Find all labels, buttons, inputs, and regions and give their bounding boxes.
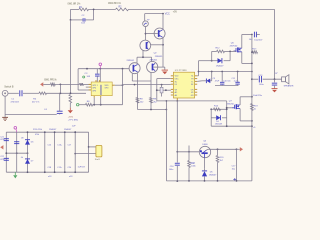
resistor R15 vertical bbox=[188, 161, 191, 168]
wire x16 vert bbox=[16, 132, 18, 172]
wire y34 right stub bbox=[257, 34, 260, 36]
wire mains bottom rail bbox=[6, 171, 88, 173]
wire x88 vertical bbox=[88, 132, 90, 172]
label C17b bbox=[232, 169, 236, 171]
capacitor C2 bbox=[83, 18, 85, 21]
label R12 bbox=[216, 48, 221, 50]
wire R4 to IC2 area bbox=[47, 92, 87, 94]
wire T3 top bbox=[144, 14, 147, 22]
junction base Q2 bbox=[145, 33, 147, 35]
label D6 bbox=[31, 141, 34, 143]
svg-text:GP4: GP4 bbox=[92, 88, 96, 90]
wire y85 long bbox=[123, 84, 171, 86]
junction row71 c10 bbox=[237, 71, 239, 73]
label Q3 type bbox=[127, 60, 135, 62]
svg-text:R*: R* bbox=[147, 20, 150, 22]
transistor Q6 mosfet bbox=[234, 47, 242, 52]
junction crystal top bbox=[88, 146, 90, 148]
svg-text:470n/D3: 470n/D3 bbox=[11, 102, 20, 104]
label C15 bbox=[253, 95, 263, 97]
port arrow BW1 bbox=[40, 82, 43, 86]
junction rail x189 bbox=[188, 151, 190, 153]
label mains r13b bbox=[35, 134, 39, 136]
wire Q7 drain bbox=[239, 97, 241, 105]
junction mega y52 bbox=[251, 51, 253, 53]
svg-text:1uF/C9: 1uF/C9 bbox=[78, 167, 86, 169]
resistor R14 bbox=[214, 108, 221, 111]
wire x166 vertical bbox=[165, 101, 167, 181]
wire C3 bottom bbox=[96, 77, 98, 82]
svg-text:C16+: C16+ bbox=[57, 144, 63, 146]
label C12 bbox=[249, 39, 253, 41]
label C2 bbox=[82, 15, 86, 17]
junction y109 b bbox=[166, 109, 168, 111]
transistor Q5 power bbox=[199, 146, 210, 157]
label col c19 bbox=[57, 167, 63, 169]
label CX1 bbox=[0, 136, 5, 141]
svg-text:SL: SL bbox=[191, 76, 193, 78]
svg-text:47uF: 47uF bbox=[215, 80, 220, 82]
resistor R5 bbox=[51, 83, 56, 86]
svg-text:470k: 470k bbox=[0, 159, 4, 161]
wire Q2 collector bbox=[162, 14, 164, 30]
label R15b bbox=[191, 165, 196, 167]
label C1 bbox=[11, 99, 15, 101]
svg-text:2N5551: 2N5551 bbox=[155, 56, 163, 58]
label Q7 type bbox=[227, 103, 234, 105]
wire x217 bottom bbox=[217, 163, 219, 181]
label R16 bbox=[190, 163, 195, 165]
power flag mains magenta bbox=[14, 127, 17, 133]
resistor R4 bbox=[39, 92, 47, 95]
svg-text:1N4007: 1N4007 bbox=[64, 129, 72, 131]
svg-text:+5V0: +5V0 bbox=[68, 117, 74, 119]
junction yB right bbox=[226, 108, 228, 110]
wire x156 vertical bbox=[156, 79, 158, 101]
wire mega vertical bbox=[251, 35, 253, 181]
wire bottom rail bbox=[166, 180, 252, 182]
junction mid link c bbox=[27, 152, 29, 154]
label D4b bbox=[215, 123, 223, 125]
wire IC1 row90 bbox=[157, 89, 171, 91]
label col c17 bbox=[68, 144, 73, 146]
label Q4 type bbox=[150, 60, 158, 62]
label D5b bbox=[209, 174, 217, 176]
wire gnd stub bbox=[164, 67, 166, 70]
wire crystal bottom bbox=[75, 153, 96, 155]
junction brail c bbox=[204, 180, 206, 182]
junction rail 122 bbox=[122, 68, 124, 70]
wire into Q3 bbox=[136, 57, 138, 63]
junction mega y96 bbox=[251, 96, 253, 98]
svg-text:IC1 PT2399: IC1 PT2399 bbox=[175, 70, 187, 72]
power flag magenta bbox=[99, 63, 102, 69]
svg-text:0W1 8R 1%: 0W1 8R 1% bbox=[68, 3, 82, 6]
junction rail x175 bbox=[176, 151, 178, 153]
wire IC2 right pin bbox=[115, 84, 123, 86]
junction node B bbox=[70, 92, 72, 94]
speaker LS1 bbox=[282, 75, 289, 84]
wire IC2 pin7 down bbox=[93, 98, 95, 105]
label C17 bbox=[232, 166, 237, 168]
junction IC1 bottom pin bbox=[176, 100, 178, 102]
label R20b bbox=[220, 160, 224, 162]
label col c18 bbox=[48, 167, 53, 169]
wire R6 right bbox=[93, 104, 123, 106]
junction x75 crystal bbox=[74, 153, 76, 155]
wire Q1 base link bbox=[151, 44, 163, 46]
junction vcc bbox=[162, 13, 164, 15]
wire c9 hang2 bbox=[221, 84, 223, 87]
label D7b bbox=[21, 157, 23, 159]
label 5V0 dark bbox=[68, 117, 74, 119]
component C8 small bbox=[160, 87, 163, 93]
port green R6 bbox=[77, 104, 79, 106]
wire crystal top bbox=[89, 146, 96, 148]
transistor Q1 bbox=[140, 40, 151, 51]
label T3 bbox=[147, 20, 150, 22]
resistor R3 bbox=[80, 83, 84, 86]
wire Q5 collector bbox=[207, 148, 237, 151]
wire vdd rail y68.7 bbox=[78, 68, 129, 70]
label R20 bbox=[220, 157, 225, 159]
junction left vert bbox=[70, 19, 72, 21]
wire arrow to R5 bbox=[43, 83, 50, 85]
label plus5 bbox=[253, 127, 256, 129]
wire x236 down bbox=[236, 149, 238, 181]
wire R3 to IC2 pin bbox=[84, 83, 92, 85]
junction yB left bbox=[210, 108, 212, 110]
wire C2 loop bottom right bbox=[85, 19, 93, 21]
junction row71 mega bbox=[251, 71, 253, 73]
label col c15 bbox=[48, 144, 53, 146]
junction Q1 base link bbox=[162, 44, 164, 46]
wire top right corner bbox=[274, 9, 276, 79]
svg-text:2N5551: 2N5551 bbox=[127, 60, 135, 62]
wire IC1 pin1 right bbox=[197, 75, 198, 77]
label mains d2 bbox=[64, 129, 72, 131]
label C3 bbox=[85, 73, 89, 75]
capacitor C9h bbox=[220, 82, 224, 84]
svg-text:TL: TL bbox=[191, 81, 193, 83]
label D3 bbox=[216, 65, 224, 67]
svg-text:1N4148: 1N4148 bbox=[215, 123, 223, 125]
svg-text:1N4007: 1N4007 bbox=[49, 129, 57, 131]
svg-text:4k7 1%: 4k7 1% bbox=[32, 102, 39, 104]
junction brail a bbox=[176, 180, 178, 182]
wire y96 row bbox=[240, 96, 252, 98]
label Q6 bbox=[231, 42, 235, 44]
junction top rail bbox=[93, 9, 95, 11]
label col c16 bbox=[57, 144, 63, 146]
wire switch down bbox=[4, 96, 6, 118]
wire D3 lead right bbox=[224, 60, 231, 62]
wire vcc rail bbox=[145, 13, 163, 15]
label R19b bbox=[254, 108, 257, 110]
label Q6 type bbox=[230, 45, 238, 47]
wire y34 left bbox=[242, 34, 252, 36]
svg-text:1uF: 1uF bbox=[72, 125, 76, 127]
label D7 bbox=[31, 161, 34, 163]
label IC1 title bbox=[175, 70, 187, 72]
resistor R19 vertical bbox=[251, 104, 254, 111]
wire Q6 source bbox=[242, 52, 252, 64]
wire mains top rail bbox=[6, 131, 88, 133]
port arrow out bbox=[237, 147, 244, 151]
wire C2 loop bottom left bbox=[71, 19, 83, 21]
junction mega y126 bbox=[251, 125, 253, 127]
svg-text:R*: R* bbox=[275, 73, 278, 75]
wire x198 vertical bbox=[198, 61, 200, 76]
wire Q5 emitter bbox=[204, 158, 206, 169]
label C2 value bbox=[81, 23, 85, 25]
wire c9 hang bbox=[221, 72, 223, 82]
label R14 bbox=[214, 106, 219, 108]
wire yC row bbox=[211, 125, 252, 127]
resistor R7 vertical bbox=[69, 95, 72, 104]
svg-text:GP0: GP0 bbox=[105, 88, 109, 90]
label R1 bbox=[79, 7, 83, 9]
label Q5 type bbox=[202, 144, 208, 146]
transistor Q7 mosfet bbox=[232, 104, 240, 109]
label col u33a bbox=[48, 176, 52, 178]
svg-text:VCC: VCC bbox=[165, 13, 170, 16]
capacitor C16 bbox=[175, 163, 180, 165]
wire C2 loop left bbox=[70, 9, 72, 20]
label tp1b bbox=[72, 125, 76, 127]
resistor R6 bbox=[86, 103, 93, 106]
diode D6 bbox=[25, 140, 30, 145]
label R4 value bbox=[32, 102, 39, 104]
wire x177 down bbox=[176, 101, 178, 163]
junction yC x226 bbox=[226, 125, 228, 127]
wire R5 to R3 bbox=[55, 83, 79, 85]
label Q2 type bbox=[155, 56, 163, 58]
junction R6 wire b bbox=[93, 104, 95, 106]
plus marker C17 bbox=[233, 178, 236, 181]
label R1 value bbox=[68, 3, 82, 6]
resistor R1 bbox=[79, 8, 89, 11]
port arrow mains bbox=[0, 145, 3, 149]
wire vdd down bbox=[99, 69, 101, 82]
svg-text:OSC: OSC bbox=[175, 79, 180, 81]
wire D3 lead left bbox=[212, 60, 218, 62]
label R8 bbox=[140, 98, 144, 100]
svg-text:SPEAKER: SPEAKER bbox=[284, 84, 294, 87]
svg-text:10p/1kV: 10p/1kV bbox=[254, 39, 263, 41]
svg-text:GP5 1: GP5 1 bbox=[92, 85, 97, 87]
junction x122 pin bbox=[122, 84, 124, 86]
wire x211 down bbox=[210, 109, 212, 126]
junction node A bbox=[60, 92, 62, 94]
junction brail e bbox=[236, 180, 238, 182]
junction row90 b bbox=[165, 89, 167, 91]
wire c10 hang2 bbox=[237, 84, 239, 87]
label D6b bbox=[21, 138, 24, 140]
label Q5 bbox=[203, 141, 207, 143]
IC U2 microcontroller bbox=[89, 80, 115, 98]
label C12b bbox=[254, 39, 263, 41]
junction rail 100 bbox=[99, 68, 101, 70]
wire Q1 emitter down bbox=[142, 51, 144, 58]
wire D3 row bbox=[199, 60, 212, 62]
junction x75 rail bbox=[74, 131, 76, 133]
wire base Q2 bbox=[146, 33, 158, 35]
port green small bbox=[83, 76, 85, 78]
wire cap gnd down2 bbox=[274, 86, 276, 89]
label D4 bbox=[216, 121, 219, 123]
wire D4 row left bbox=[211, 117, 216, 119]
label VCC bbox=[165, 13, 170, 16]
capacitor CX1 bbox=[4, 139, 9, 141]
label mains r13 bbox=[33, 129, 43, 131]
junction y85 b bbox=[161, 84, 163, 86]
capacitor CX2 bbox=[4, 158, 9, 160]
wire mains mid link bbox=[6, 152, 27, 154]
svg-text:2N7000: 2N7000 bbox=[230, 45, 238, 47]
label C9b bbox=[215, 80, 220, 82]
wire Q6 gate bbox=[234, 50, 236, 52]
wire cap column 3 bbox=[64, 131, 66, 173]
junction row71 zener bbox=[211, 71, 213, 73]
svg-text:C19+: C19+ bbox=[57, 167, 63, 169]
ground Q2 red bbox=[162, 70, 168, 74]
capacitor C10h bbox=[235, 82, 239, 84]
label R4 bbox=[33, 99, 37, 101]
transistor Q3 bbox=[129, 63, 140, 74]
label R9 bbox=[153, 98, 157, 100]
label X1 bbox=[95, 158, 101, 161]
wire base rail bbox=[177, 151, 199, 153]
wire x177 cap bottom bbox=[176, 166, 178, 181]
junction mid link a bbox=[5, 152, 7, 154]
wire R12 row right bbox=[225, 50, 236, 52]
label R9 value bbox=[153, 101, 157, 103]
capacitor C3 bbox=[95, 74, 100, 76]
wire yA row bbox=[157, 100, 227, 102]
resistor R2 bbox=[116, 8, 129, 11]
wire Q7 source bbox=[240, 109, 252, 121]
transistor Q2 bbox=[154, 28, 165, 39]
junction x27 top bbox=[27, 131, 29, 133]
capacitor C12 bbox=[254, 32, 256, 38]
svg-text:1N4007: 1N4007 bbox=[209, 174, 217, 176]
ground green bbox=[13, 172, 17, 178]
wire x161 vert bbox=[161, 85, 163, 97]
label R2 value bbox=[108, 2, 122, 5]
wire IC2 pin6 down bbox=[100, 98, 102, 105]
junction y109 a bbox=[150, 109, 152, 111]
label C13 bbox=[258, 75, 263, 77]
diode D4 bbox=[216, 115, 220, 120]
junction wireA x217 bbox=[217, 148, 219, 150]
wire into Q4 bbox=[151, 57, 153, 61]
svg-text:1N4007: 1N4007 bbox=[216, 65, 224, 67]
wire R12 row left bbox=[212, 50, 217, 52]
wire cap column 4 bbox=[74, 131, 76, 173]
svg-text:4k: 4k bbox=[21, 157, 23, 159]
wire mains left vert bbox=[5, 132, 7, 172]
label D5 bbox=[210, 171, 214, 173]
wire x27 vert bbox=[27, 132, 29, 172]
junction wireA x236 bbox=[236, 148, 238, 150]
wire top rail right bbox=[129, 8, 275, 10]
junction gate branch bbox=[229, 51, 231, 53]
label C3 value bbox=[87, 76, 91, 78]
wire C4 bottom bbox=[59, 113, 61, 114]
wire zener up bbox=[210, 72, 211, 81]
diode D7 bbox=[25, 159, 30, 164]
wire zener lead bbox=[197, 80, 202, 83]
junction y85 a bbox=[134, 84, 136, 86]
wire speaker row left bbox=[252, 78, 258, 80]
junction x274 speaker bbox=[274, 78, 276, 80]
junction row71 c9 bbox=[221, 71, 223, 73]
wire top rail left bbox=[71, 8, 80, 10]
label TP1 bbox=[68, 119, 78, 121]
wire yB row bbox=[211, 108, 227, 110]
thermistor T3 bbox=[143, 21, 149, 27]
svg-text:BS250: BS250 bbox=[227, 103, 234, 105]
svg-text:VDD: VDD bbox=[105, 85, 110, 87]
wire R7 to gnd bbox=[69, 103, 71, 108]
junction rail 87 bbox=[86, 68, 88, 70]
wire yA corner down bbox=[226, 101, 228, 126]
junction y34 bbox=[251, 34, 253, 36]
wire x122 vertical bbox=[122, 69, 124, 105]
svg-text:+5V: +5V bbox=[173, 11, 178, 14]
svg-text:0W2 8R 1%: 0W2 8R 1% bbox=[108, 2, 122, 5]
label R6 bbox=[87, 101, 91, 103]
label Switch B bbox=[4, 86, 14, 89]
junction R6 wire a bbox=[100, 104, 102, 106]
wire gnd horizontal bbox=[5, 114, 57, 116]
label R8 value bbox=[140, 101, 144, 103]
wire y81 link bbox=[132, 80, 151, 82]
label C16b bbox=[169, 169, 174, 171]
label C10 bbox=[223, 80, 231, 82]
label C11 bbox=[232, 78, 236, 80]
label C1 value bbox=[11, 102, 20, 104]
wire Q3 leg left bbox=[131, 74, 133, 81]
IC U1 main chip bbox=[171, 72, 197, 101]
svg-text:470k: 470k bbox=[35, 134, 39, 136]
ground speaker red bbox=[272, 89, 278, 93]
svg-text:100u: 100u bbox=[259, 84, 265, 86]
wire Q7 gate bbox=[227, 107, 232, 109]
svg-text:Xtal1: Xtal1 bbox=[95, 158, 101, 161]
wire cap gnd down bbox=[274, 79, 276, 82]
wire C1 to R4 bbox=[23, 92, 39, 94]
label R18 bbox=[275, 73, 278, 75]
label Q2 bbox=[154, 53, 158, 55]
svg-text:10uF/25v: 10uF/25v bbox=[253, 95, 263, 97]
capacitor C1 bbox=[20, 90, 22, 96]
capacitor C14 bbox=[272, 83, 277, 85]
junction mega y63 bbox=[251, 63, 253, 65]
svg-text:BW1 PR1%: BW1 PR1% bbox=[44, 79, 56, 81]
wire R12 left vert bbox=[211, 51, 213, 60]
svg-text:+TP1 (R5): +TP1 (R5) bbox=[68, 119, 78, 121]
wire switch to C1 bbox=[8, 92, 19, 94]
resistor R8 vertical bbox=[136, 98, 139, 104]
label R19 bbox=[254, 105, 259, 107]
wire row71 long bbox=[199, 71, 252, 73]
label C13b bbox=[259, 84, 265, 86]
label R17 bbox=[252, 49, 257, 51]
resistor R9 vertical bbox=[150, 98, 153, 104]
junction mid link b bbox=[16, 152, 18, 154]
